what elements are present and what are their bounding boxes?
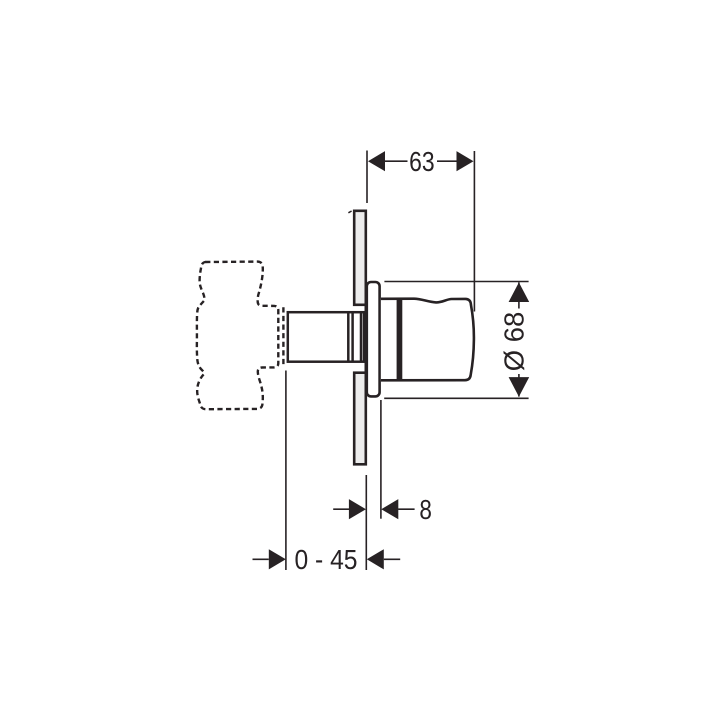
dimension Ø68: top extension line	[384, 281, 528, 283]
wall plate lower section	[354, 373, 366, 465]
dimension Ø68: bottom extension line	[384, 397, 528, 399]
handle body (right side)	[381, 299, 474, 381]
dimension 63: right extension line	[473, 151, 475, 312]
svg-text:Ø 68: Ø 68	[499, 312, 530, 372]
wall plate right outline through spindle hole	[364, 303, 367, 374]
wall plate upper section	[354, 211, 366, 305]
spindle collar line 2	[351, 312, 354, 362]
dimension 0-45: left tail	[253, 558, 269, 560]
dimension 63: line right segment	[437, 160, 457, 162]
dimension 8: left tail	[333, 508, 349, 510]
dimension 63: line left segment	[385, 160, 408, 162]
dashed phantom handle outline (left)	[197, 262, 278, 410]
svg-text:8: 8	[419, 494, 432, 525]
dimension Ø68: line top segment	[518, 282, 520, 308]
dimension Ø68: line bottom segment	[518, 374, 520, 397]
handle grip bar	[397, 300, 403, 380]
dimension 63: left arrow	[368, 151, 385, 171]
svg-text:0 - 45: 0 - 45	[295, 544, 358, 575]
dimension 8: right extension line	[380, 400, 382, 519]
dimension Ø68: top arrow	[509, 282, 530, 302]
dimension 0-45: right tail	[384, 558, 400, 560]
tick mark at plate top-left	[348, 211, 351, 213]
dimension 8: left extension line (shared with 0-45 right)	[365, 475, 367, 570]
dimension 63: right arrow	[457, 151, 474, 171]
dimension 8: right tail	[398, 508, 415, 510]
dimension 8: right arrow	[381, 499, 398, 519]
escutcheon (wall rosette, side view)	[367, 282, 380, 396]
dimension 0-45: right arrow	[367, 549, 384, 569]
valve spindle body	[288, 312, 364, 362]
svg-text:63: 63	[409, 146, 435, 177]
dimension 0-45: left extension line	[285, 371, 287, 571]
dimension 0-45: left arrow	[269, 549, 286, 569]
dashed hub inner line	[282, 307, 284, 365]
spindle collar line 3	[360, 312, 363, 362]
spindle collar line 1	[347, 312, 350, 362]
dimension 8: left arrow	[349, 499, 366, 519]
dimension Ø68: bottom arrow	[509, 377, 530, 397]
dimension 63: left extension line	[366, 151, 368, 204]
